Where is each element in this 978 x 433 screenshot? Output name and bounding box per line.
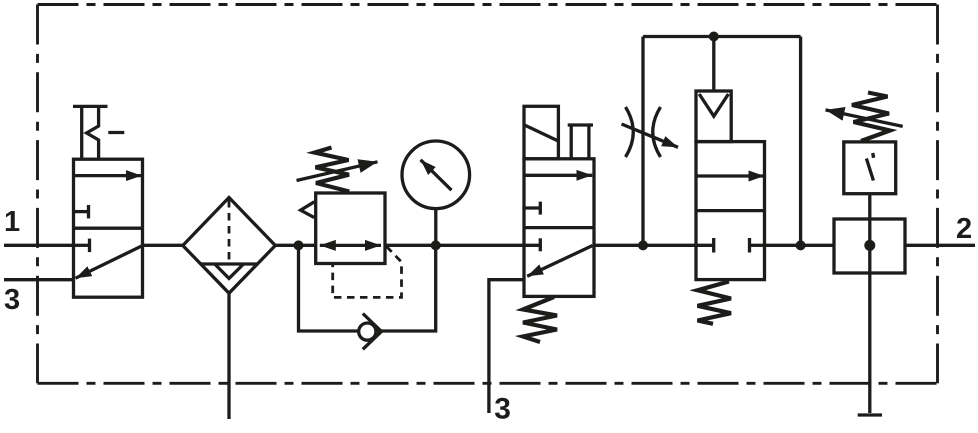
valve V2 body (3/2 solenoid valve) xyxy=(524,159,594,297)
wire regulator to gauge junction xyxy=(385,244,524,247)
node A junction xyxy=(294,240,304,250)
valve V2 bottom blocked port xyxy=(524,244,540,247)
valve V3 bottom blocked ports xyxy=(696,244,714,247)
check valve C1 xyxy=(359,323,376,340)
regulator R1 adjustment arrow xyxy=(297,162,378,181)
valve V3 return spring xyxy=(698,282,732,324)
wire valve V1 to filter xyxy=(143,244,183,247)
pressure switch S1 contact xyxy=(866,159,873,181)
valve V3 top flow arrow xyxy=(697,174,764,177)
wire valve V2 to junction xyxy=(594,244,696,247)
gauge G1 stem xyxy=(434,208,437,245)
node D junction xyxy=(709,32,719,42)
right riser wire xyxy=(799,37,802,246)
throttle branch riser xyxy=(641,37,644,246)
node E junction xyxy=(796,240,806,250)
enclosure border left xyxy=(36,5,39,384)
valve V2 position divider xyxy=(524,226,594,229)
valve V3 body (2/2 soft-start valve) xyxy=(696,142,765,280)
enclosure border top xyxy=(38,3,938,6)
pressure switch S1 adjustment arrow xyxy=(826,110,903,127)
enclosure border right xyxy=(936,5,939,384)
wire filter to regulator xyxy=(275,244,314,247)
filter F1 with water separator xyxy=(183,198,275,294)
regulator R1 pilot line (dashed) xyxy=(333,247,402,298)
valve V1 manual detent actuator xyxy=(73,105,108,108)
valve V2 solenoid xyxy=(524,106,558,159)
valve V3 pilot wire xyxy=(712,37,715,92)
valve V2 top blocked port xyxy=(524,206,540,209)
svg-text:2: 2 xyxy=(956,213,972,245)
top bypass wire xyxy=(643,35,801,38)
valve V2 return spring xyxy=(523,297,557,342)
port 3 wire (left) xyxy=(4,278,74,281)
sensing junction box xyxy=(834,219,905,273)
valve V2 manual override xyxy=(568,123,593,126)
valve V2 exhaust arrow xyxy=(527,246,592,277)
node B junction xyxy=(431,240,441,250)
enclosure border bottom xyxy=(38,382,938,385)
svg-text:3: 3 xyxy=(4,284,20,316)
pressure switch S1 box xyxy=(844,142,896,194)
filter drain wire xyxy=(227,293,230,419)
wire valve V3 to sensor xyxy=(765,244,835,247)
pressure switch S1 spring xyxy=(852,93,890,142)
pressure switch S1 connection wire xyxy=(868,194,871,413)
bypass wire down-left xyxy=(299,245,359,331)
port 1 wire xyxy=(4,244,74,247)
port 2 wire xyxy=(905,244,975,247)
valve V1 position divider xyxy=(74,227,143,230)
throttle valve T1 arcs xyxy=(626,107,634,157)
regulator R1 relief chevron xyxy=(301,202,315,218)
regulator R1 body xyxy=(316,193,385,264)
valve V1 body (3/2 shut-off valve) xyxy=(74,159,143,297)
valve V1 bottom blocked port xyxy=(74,244,90,247)
valve V2 port 3 wire xyxy=(489,280,524,413)
gauge G1 dial xyxy=(402,141,470,209)
sensor line terminator xyxy=(858,413,882,416)
valve V3 pneumatic pilot box xyxy=(696,91,731,142)
valve V1 top blocked port xyxy=(74,210,89,213)
svg-text:3: 3 xyxy=(494,392,511,425)
throttle valve T1 adjustment arrow xyxy=(622,124,679,147)
node C junction xyxy=(638,240,648,250)
gauge G1 needle xyxy=(421,160,452,190)
valve V2 top flow arrow xyxy=(525,174,593,177)
regulator R1 spring xyxy=(315,148,350,192)
bypass wire right-up xyxy=(376,245,435,331)
svg-text:1: 1 xyxy=(4,206,20,238)
valve V1 top flow arrow xyxy=(75,174,142,177)
regulator R1 flow path arrows xyxy=(336,244,364,247)
valve V1 exhaust arrow xyxy=(76,246,143,278)
node F junction xyxy=(864,240,875,251)
valve V3 position divider xyxy=(696,209,765,212)
